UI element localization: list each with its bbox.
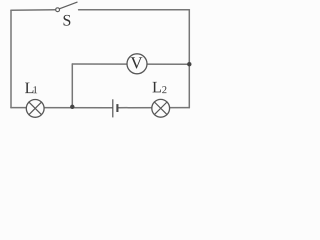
junction dot on right wire xyxy=(187,62,191,66)
lamp L2 cross xyxy=(154,102,167,115)
wire: left vertical xyxy=(10,10,12,107)
wire: top right segment xyxy=(79,9,190,11)
junction dot on bottom wire xyxy=(70,105,74,109)
switch S blade xyxy=(60,2,77,9)
wire: bottom left of battery xyxy=(11,107,112,109)
wire: bottom right of battery xyxy=(118,107,189,109)
lamp L2 circle xyxy=(152,99,170,117)
battery long plate (positive) xyxy=(112,99,114,117)
voltmeter U1 circle xyxy=(127,54,147,74)
label L2 xyxy=(153,82,161,92)
wire: voltmeter branch horizontal xyxy=(72,63,189,65)
lamp L1 circle xyxy=(26,100,44,118)
battery short plate (negative) xyxy=(116,104,118,112)
switch S pivot circle xyxy=(56,8,60,12)
wire: right vertical xyxy=(188,10,190,108)
voltmeter label V xyxy=(131,57,143,68)
wire: top left segment xyxy=(11,9,55,11)
label S xyxy=(64,15,71,26)
label L1 xyxy=(25,83,33,93)
wire: voltmeter branch vertical xyxy=(71,64,73,107)
lamp L1 cross xyxy=(29,102,42,115)
